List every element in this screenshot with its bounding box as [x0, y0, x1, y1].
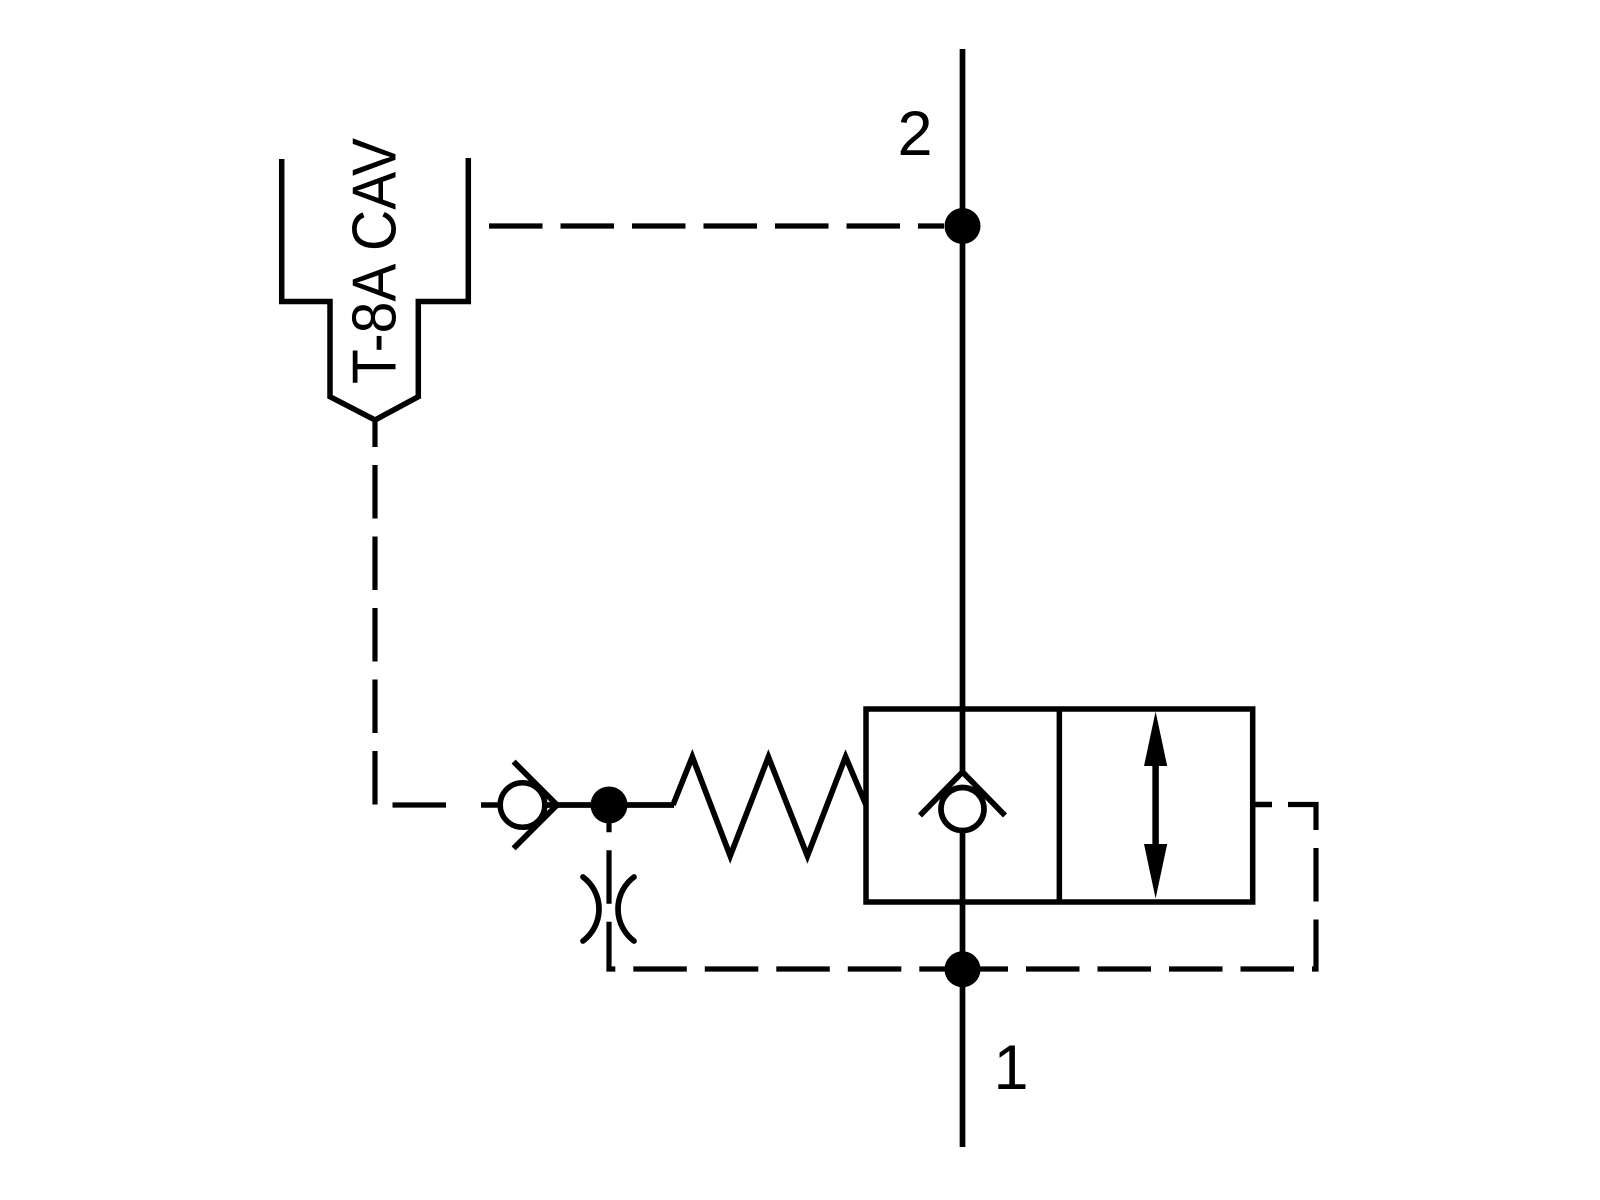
pilot junction dot	[591, 787, 628, 824]
check valve V1 ball	[500, 783, 545, 828]
orifice right arc	[618, 877, 634, 941]
check valve V1 seat	[514, 762, 557, 849]
wire: dashed pilot line box to node 1	[962, 805, 1316, 970]
orifice left arc	[583, 877, 599, 941]
valve check ball	[941, 788, 984, 831]
wire: main vertical line valve to port 1	[960, 833, 966, 1147]
wire: main vertical line port 2 to valve	[960, 49, 966, 772]
valve spool arrow head down	[1144, 844, 1167, 899]
wire: dashed drain line from cavity point down to check valve	[375, 420, 462, 805]
wire: dashed pilot line cavity to node 2	[471, 223, 944, 228]
valve spool arrow head up	[1144, 712, 1167, 767]
wire: dashed line pilot junction through orifice to node 1	[609, 805, 962, 969]
valve spool arrow shaft	[1152, 762, 1159, 848]
spring	[673, 757, 866, 856]
wire: pilot tap stub from valve box	[1253, 802, 1272, 808]
valve body box	[866, 709, 1253, 902]
node 2 junction dot	[945, 208, 981, 244]
node 1 junction dot	[945, 951, 981, 987]
svg-text:2: 2	[897, 99, 932, 169]
cavity outline T-8A CAV	[282, 158, 469, 420]
valve body divider	[1057, 709, 1063, 902]
valve check seat	[920, 772, 1005, 816]
wire: check valve to spring	[545, 802, 674, 808]
svg-text:1: 1	[993, 1033, 1028, 1103]
svg-text:T-8A CAV: T-8A CAV	[340, 137, 409, 384]
wire: stub into pilot check valve	[481, 802, 500, 808]
